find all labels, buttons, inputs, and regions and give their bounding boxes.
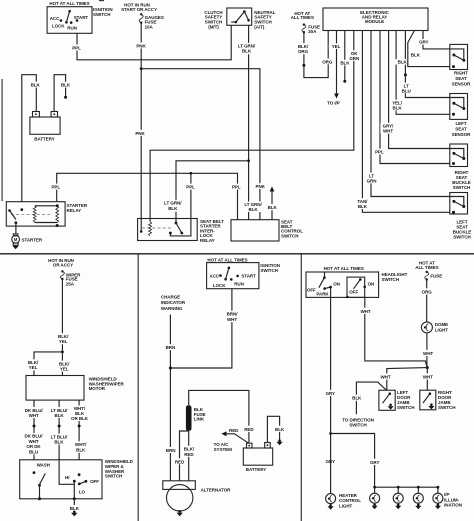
svg-text:BLK: BLK (398, 60, 408, 65)
wire RED branch to alternator (172, 431, 189, 481)
wire BLK/YEL left branch to motor (25, 352, 73, 376)
svg-text:MOTOR: MOTOR (89, 386, 106, 391)
wire WHT to right door jamb switch (421, 368, 436, 391)
windshield washer/wiper motor (26, 376, 125, 401)
svg-text:ACC: ACC (50, 16, 60, 21)
svg-text:SWITCH: SWITCH (349, 423, 366, 428)
svg-text:BLK: BLK (242, 49, 252, 54)
svg-text:PNK: PNK (135, 131, 145, 136)
wire LT BLU: ERM to left seat sensor (395, 31, 450, 98)
wire GRY/WHT: ERM to right seat buckle switch (380, 31, 450, 149)
svg-text:SENSOR: SENSOR (452, 132, 472, 137)
wire BLK connector dot (338, 31, 353, 83)
wire ORG fuse to dome light (419, 280, 434, 322)
svg-text:SWITCH: SWITCH (260, 268, 277, 273)
junction BRN (169, 367, 172, 370)
svg-text:WHT: WHT (423, 351, 433, 356)
svg-text:(M/T): (M/T) (208, 24, 219, 29)
svg-text:BLK: BLK (268, 205, 278, 210)
wire PPL: starter relay to interlock relay to control switch (48, 173, 243, 219)
svg-text:CONTROL: CONTROL (339, 498, 361, 503)
svg-text:BLK: BLK (393, 106, 403, 111)
svg-text:ON: ON (333, 282, 340, 287)
panel divider right (301, 253, 302, 521)
svg-text:PPL: PPL (232, 184, 241, 189)
svg-text:LOCK: LOCK (52, 24, 65, 29)
seat belt starter interlock relay (138, 219, 225, 244)
ground at starter (12, 246, 18, 249)
junction LT GRN/BLK branch (247, 159, 250, 162)
svg-text:GRN: GRN (367, 178, 377, 183)
svg-text:RELAY: RELAY (200, 238, 215, 243)
svg-text:SWITCH: SWITCH (93, 12, 110, 17)
svg-text:LINK: LINK (194, 417, 205, 422)
wire LT BLU/BLK motor to switch (49, 400, 68, 460)
svg-text:LIGHT: LIGHT (339, 504, 353, 509)
left seat buckle switch (450, 193, 471, 240)
svg-text:WHT: WHT (360, 309, 370, 314)
svg-text:YEL: YEL (60, 366, 69, 371)
junction WHT (426, 366, 429, 369)
svg-text:BLK: BLK (248, 207, 258, 212)
ground alternator (177, 510, 183, 516)
wire GRY headlight switch down (323, 288, 339, 464)
svg-text:LEFT: LEFT (455, 121, 466, 126)
svg-text:RED: RED (244, 427, 254, 432)
I/P illumination lamp bus (373, 486, 439, 489)
starter relay (6, 202, 88, 227)
panel3 header hot at all times (headlight) (324, 266, 364, 271)
svg-text:BLK: BLK (358, 204, 368, 209)
svg-text:ORG: ORG (298, 49, 309, 54)
dome light (421, 322, 448, 333)
wire GRY branch to I/P lamps (331, 434, 383, 488)
wire BLK battery to ground (267, 416, 287, 442)
svg-text:BLK: BLK (352, 396, 362, 401)
wire BLK/YEL fuse to wiper motor (55, 280, 72, 376)
section divider horizontal (0, 253, 474, 254)
svg-text:BLK: BLK (340, 60, 350, 65)
wire starter relay to starter (15, 223, 17, 235)
wire YEL to I/P (327, 31, 343, 106)
svg-text:RIGHT: RIGHT (454, 70, 468, 75)
junction PNK branch (140, 67, 143, 70)
svg-text:BLK: BLK (31, 83, 41, 88)
svg-text:OFF: OFF (349, 289, 358, 294)
seat belt control switch (231, 220, 303, 242)
right seat sensor (450, 44, 471, 86)
svg-text:START OR ACCY: START OR ACCY (121, 7, 157, 12)
svg-text:OFF: OFF (307, 287, 316, 292)
svg-text:SENSOR: SENSOR (452, 81, 472, 86)
svg-text:OR ACCY: OR ACCY (53, 263, 73, 268)
wire LT GRN: ERM to left seat buckle switch (365, 31, 450, 197)
junction BLK/YEL branch (61, 351, 64, 354)
electronic and relay module (323, 8, 428, 31)
panel1 header hot in run or accy (48, 258, 74, 268)
wire BLK battery right with connector dot (54, 75, 73, 112)
wire BRN/WHT ignition to charge indicator junction (170, 289, 240, 368)
svg-text:START: START (74, 15, 89, 20)
svg-text:START: START (241, 273, 256, 278)
fuse 20A (hot at all times) (291, 11, 320, 34)
svg-text:INDICATOR: INDICATOR (161, 300, 186, 305)
BLK fuse link (186, 405, 206, 431)
svg-text:CHARGE: CHARGE (161, 294, 180, 299)
heater control light (326, 493, 362, 509)
svg-text:BLK: BLK (411, 53, 421, 58)
svg-text:MODULE: MODULE (365, 19, 384, 24)
wire PNK: fuse down to seat belt interlock relay (133, 24, 150, 233)
wire BLK wiper switch to ground (67, 499, 82, 511)
svg-text:FUSE: FUSE (430, 274, 442, 279)
wire DK BLU/WHT motor to switch (24, 400, 44, 460)
svg-text:PPL: PPL (186, 184, 195, 189)
wire PNK branch to seat belt control switch (141, 69, 267, 220)
svg-text:DOME: DOME (435, 322, 448, 327)
panel divider left (138, 253, 139, 521)
svg-text:BATTERY: BATTERY (34, 137, 54, 142)
svg-text:YEL: YEL (29, 365, 38, 370)
I/P lamp 4 (433, 487, 443, 509)
wire WHT/BLK OR BLK motor to switch (71, 400, 89, 460)
svg-text:SWITCH: SWITCH (105, 474, 122, 479)
ignition switch (top left) (47, 1, 113, 33)
svg-text:ALL TIMES: ALL TIMES (291, 15, 314, 20)
ground heater control light (328, 504, 334, 510)
battery (bottom) (243, 443, 272, 473)
svg-text:BLK: BLK (76, 447, 86, 452)
clutch safety switch / neutral safety switch (204, 8, 275, 29)
wire BLK/RED fuse link to alternator (181, 431, 198, 481)
I/P lamp 2 (393, 487, 403, 509)
svg-text:GRY: GRY (370, 460, 379, 465)
svg-text:WHT: WHT (29, 413, 39, 418)
svg-text:ILLUM-: ILLUM- (444, 497, 459, 502)
right seat buckle switch (450, 144, 471, 190)
svg-text:RED: RED (229, 428, 239, 433)
svg-text:HOT AT ALL TIMES: HOT AT ALL TIMES (207, 257, 247, 262)
svg-text:ACC: ACC (210, 273, 220, 278)
svg-text:OFF: OFF (90, 479, 99, 484)
charge indicator warning lead (161, 294, 186, 481)
svg-text:RELAY: RELAY (67, 208, 82, 213)
wire BLK with up arrow at control switch (265, 187, 280, 220)
wire YEL/BLK: ERM to left seat sensor (390, 31, 450, 115)
svg-text:SWITCH: SWITCH (453, 185, 470, 190)
svg-text:RED: RED (175, 459, 185, 464)
wire WHT to left door jamb switch (378, 368, 427, 391)
svg-text:BLK: BLK (55, 413, 65, 418)
svg-text:LT GRN/: LT GRN/ (164, 201, 182, 206)
wiper fuse 25A (60, 270, 81, 286)
windshield wiper and washer switch (20, 459, 134, 500)
svg-text:BATTERY: BATTERY (246, 467, 266, 472)
svg-text:BLU: BLU (29, 449, 38, 454)
svg-text:RUN: RUN (234, 281, 244, 286)
svg-text:OR BLK: OR BLK (71, 416, 89, 421)
wire BLK: ERM to right seat sensor (408, 31, 450, 67)
svg-text:SWITCH: SWITCH (382, 277, 399, 282)
wire BLK battery to starter relay (22, 75, 43, 202)
svg-text:SEAT: SEAT (455, 76, 467, 81)
junction GRY (329, 432, 332, 435)
svg-text:PNK: PNK (136, 43, 146, 48)
left door jamb switch (379, 390, 415, 411)
fuse dome (hot at all times) (415, 261, 442, 281)
svg-text:GRY: GRY (326, 391, 335, 396)
svg-text:WARNING: WARNING (161, 306, 183, 311)
svg-text:SWITCH: SWITCH (438, 405, 455, 410)
svg-text:10A: 10A (145, 24, 154, 29)
svg-text:SEAT: SEAT (455, 127, 467, 132)
svg-text:SWITCH: SWITCH (397, 405, 414, 410)
svg-text:ORG: ORG (322, 59, 333, 64)
svg-text:TO I/P: TO I/P (327, 100, 340, 105)
svg-text:HOT AT ALL TIMES: HOT AT ALL TIMES (49, 1, 89, 6)
svg-text:WHT: WHT (227, 317, 237, 322)
svg-text:RUN: RUN (67, 26, 77, 31)
svg-text:INATION: INATION (444, 503, 462, 508)
svg-text:LT GRN/: LT GRN/ (238, 43, 256, 48)
svg-text:LO: LO (79, 489, 86, 494)
svg-text:25A: 25A (66, 281, 75, 286)
svg-text:BRN: BRN (166, 448, 176, 453)
svg-text:WASH: WASH (37, 462, 50, 467)
ground battery BLK (276, 439, 282, 445)
panel2 header hot at all times (207, 257, 247, 262)
I/P lamp 1 (370, 487, 380, 509)
wire WHT headlight switch inner to junction (358, 297, 427, 367)
svg-text:SWITCH: SWITCH (453, 234, 470, 239)
svg-text:M: M (14, 237, 18, 242)
wire RED to A/C system arrow (214, 428, 248, 452)
svg-text:HI: HI (65, 475, 69, 480)
starter motor (12, 234, 43, 245)
wire WHT dome light to junction (421, 333, 436, 368)
wire LT GRN/BLK: neutral switch down to seat belt control switch (238, 25, 263, 219)
svg-text:I/P: I/P (444, 492, 449, 497)
wire DK GRN: ERM to interlock relay coil (150, 31, 361, 222)
svg-text:BLK: BLK (61, 83, 71, 88)
left seat sensor (450, 94, 471, 138)
wire PPL: ERM to right seat buckle switch (372, 31, 450, 164)
junction PPL to interlock relay (190, 172, 193, 175)
I/P illumination label (444, 492, 462, 508)
svg-text:HOT AT ALL TIMES: HOT AT ALL TIMES (324, 266, 364, 271)
svg-text:PPL: PPL (51, 184, 60, 189)
wire GRY: ERM to right seat sensor (417, 31, 450, 49)
ground wiper switch (71, 511, 77, 517)
svg-text:LIGHT: LIGHT (435, 328, 449, 333)
svg-text:(A/T): (A/T) (254, 24, 265, 29)
svg-text:PPL: PPL (375, 150, 384, 155)
svg-text:ORG: ORG (422, 289, 433, 294)
svg-text:WHT: WHT (380, 375, 390, 380)
svg-text:BLK: BLK (54, 440, 64, 445)
wire LT GRN/BLK branch to interlock relay (164, 161, 248, 223)
svg-text:SYSTEM: SYSTEM (214, 447, 233, 452)
wire PPL drop into interlock relay (170, 173, 198, 236)
svg-text:GRY: GRY (419, 40, 428, 45)
svg-text:RED: RED (184, 452, 194, 457)
svg-text:WHT: WHT (383, 129, 393, 134)
svg-text:HEATER: HEATER (339, 493, 358, 498)
svg-text:PARK: PARK (316, 292, 329, 297)
svg-text:LOCK: LOCK (213, 283, 226, 288)
svg-text:WHT: WHT (423, 375, 433, 380)
headlight switch (306, 272, 408, 298)
wire BLK/ORG fuse to ERM (ORG) (296, 31, 336, 78)
gauges fuse 10A (121, 3, 164, 30)
ignition switch (bottom) (207, 263, 280, 289)
svg-text:BLK: BLK (70, 506, 80, 511)
svg-text:STARTER: STARTER (22, 237, 43, 242)
wire BLK to direction switch (342, 382, 386, 428)
svg-text:BLU: BLU (402, 88, 411, 93)
scan artifact left edge (2, 0, 105, 201)
I/P lamp 3 (413, 487, 423, 509)
svg-text:YEL: YEL (59, 339, 68, 344)
svg-text:ON: ON (368, 282, 375, 287)
right door jamb switch (420, 390, 456, 410)
svg-text:SWITCH: SWITCH (281, 233, 298, 238)
alternator (163, 481, 231, 511)
wire TAN/BLK: ERM to left seat buckle switch (355, 31, 450, 213)
svg-text:BLK: BLK (275, 427, 285, 432)
svg-text:GRN: GRN (349, 56, 359, 61)
svg-text:ALTERNATOR: ALTERNATOR (201, 488, 232, 493)
svg-text:YEL: YEL (332, 44, 341, 49)
wire RED battery to fuse link (189, 390, 257, 443)
scan artifact top right corner (0, 0, 1, 1)
wire GRY to heater control light (330, 434, 332, 494)
svg-text:PNK: PNK (256, 184, 266, 189)
wire PPL: ignition START down, right, up to clutch safety switch (69, 25, 231, 60)
svg-text:BLK: BLK (168, 206, 178, 211)
svg-text:ALL TIMES: ALL TIMES (415, 265, 438, 270)
battery (top left) (30, 112, 60, 142)
svg-text:BRN: BRN (166, 345, 176, 350)
svg-text:20A: 20A (308, 29, 317, 34)
svg-text:PPL: PPL (72, 46, 81, 51)
